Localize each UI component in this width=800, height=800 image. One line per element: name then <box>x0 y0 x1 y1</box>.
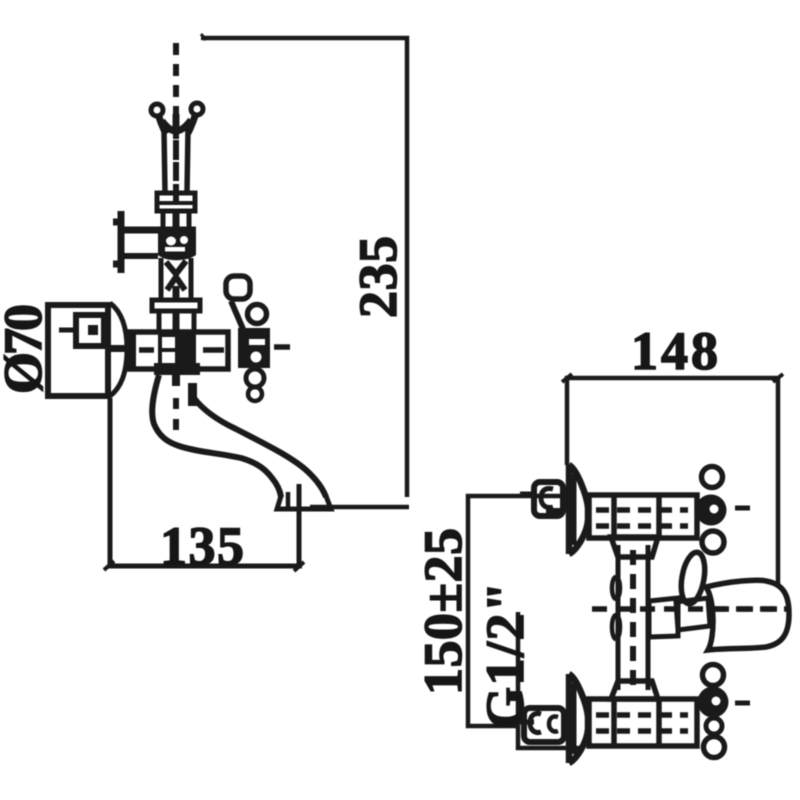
svg-text:135: 135 <box>160 516 244 576</box>
diverter valve ball (dark) <box>158 231 196 260</box>
main body column <box>159 311 194 332</box>
top valve: escutcheon bell <box>569 465 588 554</box>
tee below top valve <box>611 537 658 557</box>
dimension line 150±25 <box>468 496 560 726</box>
svg-text:150±25: 150±25 <box>413 528 473 695</box>
spout (curved, down-right) <box>152 363 331 509</box>
label 135 <box>160 516 244 576</box>
label G1/2" (rotated) <box>475 582 535 729</box>
tee above bottom valve <box>611 681 658 699</box>
upper body flange <box>152 300 200 311</box>
svg-text:148: 148 <box>631 321 718 381</box>
label 235 (rotated) <box>348 236 408 318</box>
label 150±25 (rotated) <box>413 528 473 695</box>
dimension line 235 (top + right) <box>201 34 407 497</box>
horizontal centerline top valve <box>520 494 750 508</box>
label 148 <box>631 321 718 381</box>
bottom valve: escutcheon bell <box>569 674 588 763</box>
riser neck tube <box>164 130 188 192</box>
connecting pipe between valves <box>612 545 648 690</box>
diverter bracket (left) <box>113 211 196 273</box>
centerline shower riser (dashed) <box>173 43 179 210</box>
bottom valve: body <box>589 699 697 746</box>
svg-text:Ø70: Ø70 <box>0 304 53 394</box>
handshower holder cup <box>706 580 789 650</box>
extension line from spout tip to 235 line <box>310 505 409 510</box>
bottom valve: cross handle (edge view) <box>698 665 729 758</box>
wall plate square box <box>48 305 108 396</box>
main body cross tee <box>130 332 228 369</box>
diverter lever knob <box>676 550 710 630</box>
spout tip tick <box>297 484 302 530</box>
horizontal centerline bottom valve <box>520 703 750 722</box>
neck below collar <box>163 211 189 230</box>
svg-text:235: 235 <box>348 236 408 318</box>
cross handle (right, front view) <box>226 276 270 401</box>
riser collar flange <box>157 193 195 211</box>
top valve: cross handle (edge view) <box>696 467 727 554</box>
top valve: wall fitting <box>534 482 563 517</box>
leader line G1/2 <box>518 612 580 748</box>
dimension 135 <box>104 398 304 571</box>
centerline dash right of body <box>274 344 290 350</box>
middle tee outlet <box>649 598 678 637</box>
wall escutcheon bell (profile) <box>107 303 127 396</box>
top valve: body <box>589 495 697 538</box>
body section below ball <box>161 258 191 300</box>
shower cradle fork <box>151 103 203 134</box>
bottom valve: wall fitting <box>524 708 564 742</box>
label diameter 70 (rotated) <box>0 304 53 394</box>
centerline dashes through shower holder <box>592 606 790 612</box>
dimension line 148 <box>562 374 783 585</box>
